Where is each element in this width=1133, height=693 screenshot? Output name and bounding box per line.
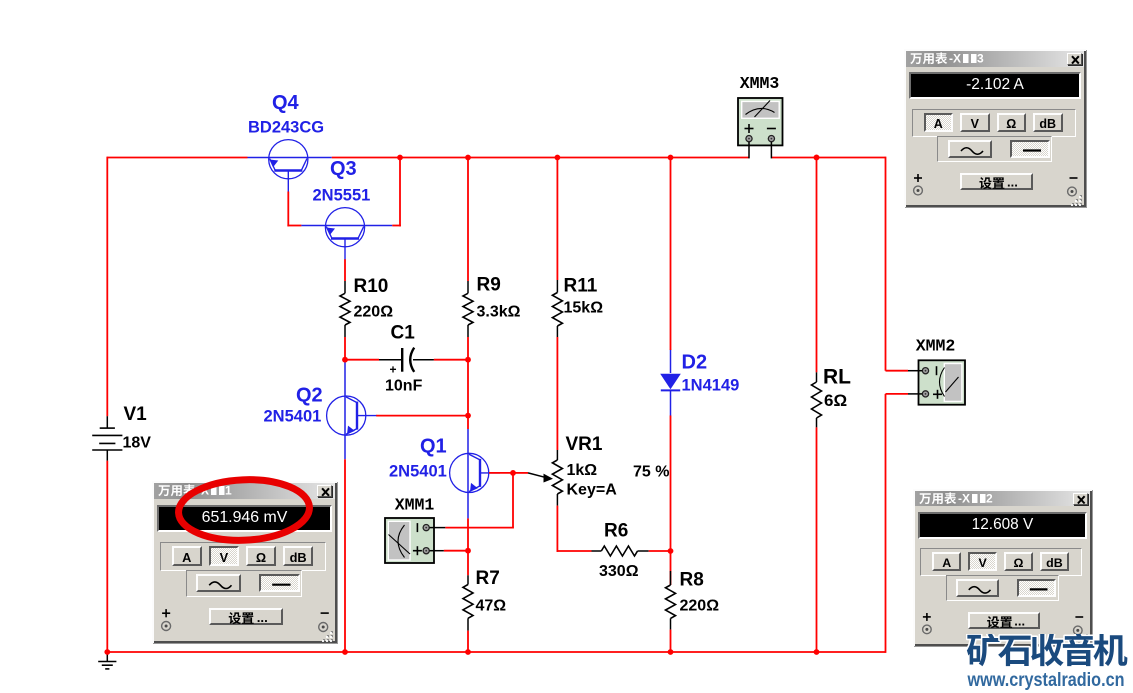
- display readout -2.102 A of XMM3: [909, 72, 1081, 99]
- button A of XMM1: [172, 546, 202, 566]
- svg-text:15kΩ: 15kΩ: [564, 300, 604, 317]
- wire bottom rail: [106, 651, 885, 653]
- wire C1 right lead: [434, 359, 468, 361]
- node top rail / R11: [555, 155, 561, 161]
- value Key=A of VR1: [567, 482, 618, 499]
- value 47ohm of R7: [476, 598, 507, 615]
- wire D2 to R6 node: [670, 416, 672, 552]
- svg-text:+: +: [390, 363, 397, 377]
- svg-text:R10: R10: [354, 276, 389, 297]
- label XMM2: [916, 337, 956, 356]
- button A of XMM2: [932, 552, 961, 571]
- terminal - of XMM1: [312, 608, 338, 639]
- node R6 / D2 / R8: [668, 548, 674, 554]
- svg-text:330Ω: 330Ω: [599, 563, 639, 580]
- label R8: [680, 570, 704, 591]
- label R11: [564, 276, 598, 297]
- wire Q3 collector to top rail node: [392, 225, 401, 227]
- wire XMM1 + lead black: [430, 550, 444, 552]
- display readout 651.946 mV of XMM1: [157, 505, 332, 533]
- svg-text:6Ω: 6Ω: [824, 391, 847, 410]
- node top rail / RL: [814, 155, 820, 161]
- svg-text:Q2: Q2: [296, 385, 323, 407]
- multimeter icon XMM2: [919, 360, 966, 404]
- close button of XMM2 panel: [1073, 493, 1088, 505]
- wire left rail lower (V1 -): [106, 461, 108, 652]
- label Q2: [296, 385, 323, 407]
- ground symbol: [98, 652, 116, 669]
- button dB of XMM2: [1040, 552, 1069, 571]
- resize grip of XMM2 panel: [1076, 634, 1092, 646]
- polarity + of C1: [390, 363, 397, 377]
- svg-text:18V: 18V: [123, 435, 152, 452]
- svg-text:BD243CG: BD243CG: [248, 119, 324, 137]
- value 220ohm of R10: [354, 304, 394, 321]
- value 3.3kohm of R9: [477, 304, 521, 321]
- value 2N5551 of Q3: [313, 187, 371, 205]
- button Ohm of XMM1: [246, 546, 276, 566]
- wire top rail to R11: [556, 158, 558, 281]
- svg-text:RL: RL: [823, 366, 851, 389]
- button dB of XMM1: [283, 546, 313, 566]
- wire top rail to RL: [816, 158, 818, 373]
- label R6: [604, 521, 628, 542]
- svg-text:V1: V1: [124, 404, 148, 425]
- wire R9 node down to Q2 base node: [467, 360, 469, 416]
- value 15kohm of R11: [564, 300, 604, 317]
- wire Q3 collector vertical: [399, 158, 401, 227]
- svg-text:VR1: VR1: [566, 434, 603, 455]
- svg-text:Key=A: Key=A: [567, 482, 618, 499]
- resize grip of XMM1 panel: [321, 631, 337, 643]
- svg-text:220Ω: 220Ω: [354, 304, 394, 321]
- wire XMM1 minus horizontal: [445, 527, 514, 529]
- node top rail / R9: [465, 155, 471, 161]
- value 75 % of VR1: [633, 464, 669, 481]
- label Q4: [272, 92, 300, 114]
- resistor R8 220ohm: [670, 551, 672, 585]
- wire left rail upper (V1 +): [106, 157, 108, 417]
- wire top rail right segment (XMM3 to corner): [772, 157, 886, 159]
- button A of XMM3: [924, 113, 954, 133]
- resistor R9 3.3kohm: [467, 281, 469, 293]
- resize grip of XMM3 panel: [1070, 195, 1086, 207]
- svg-text:...: ...: [257, 610, 268, 625]
- svg-text:47Ω: 47Ω: [476, 598, 507, 615]
- wire Q2 base node down to Q1 collector: [467, 416, 469, 429]
- svg-text:2: 2: [986, 492, 993, 506]
- value 10nF of C1: [385, 378, 423, 395]
- svg-text:75 %: 75 %: [633, 464, 669, 481]
- instrument panel 万用表-XMM2 (multimeter window): [913, 489, 1092, 646]
- button DC (line, selected) of XMM1: [259, 574, 300, 592]
- node top rail / XMM2 branch: [814, 155, 820, 161]
- button V of XMM2: [968, 552, 997, 571]
- node bottom rail / RL: [814, 649, 820, 655]
- wire Q3 base to R10: [344, 259, 346, 281]
- potentiometer VR1 1kohm: [556, 450, 558, 460]
- label XMM1: [395, 496, 435, 515]
- svg-text:www.crystalradio.cn: www.crystalradio.cn: [967, 669, 1125, 691]
- button 设置... (settings) of XMM1: [209, 608, 283, 625]
- wire right rail lower (XMM2 + to bottom rail): [885, 394, 887, 653]
- wire Q4 base down: [287, 192, 289, 227]
- wire top rail to R9: [467, 158, 469, 282]
- node C1 left / Q2 collector: [342, 357, 348, 363]
- wire XMM1 - lead black: [430, 527, 446, 529]
- wire XMM3 + to top rail: [748, 142, 750, 158]
- svg-text:R7: R7: [476, 568, 500, 589]
- svg-text:2N5401: 2N5401: [389, 463, 447, 481]
- wire XMM2 + lead black: [908, 393, 922, 395]
- svg-text:1kΩ: 1kΩ: [567, 462, 598, 479]
- wire XMM2 - lead black: [908, 370, 922, 372]
- resistor R10 220ohm: [344, 281, 346, 293]
- button 设置... (settings) of XMM2: [968, 612, 1040, 628]
- value 6ohm of RL: [824, 391, 847, 410]
- svg-text:10nF: 10nF: [385, 378, 423, 395]
- button AC (sine) of XMM1: [196, 574, 241, 592]
- multimeter icon XMM1: [385, 518, 434, 563]
- label R7: [476, 568, 500, 589]
- svg-text:Q1: Q1: [420, 436, 447, 458]
- label Q1: [420, 436, 447, 458]
- annotation red ellipse around XMM1 reading: [164, 470, 324, 550]
- button Ohm of XMM2: [1004, 552, 1033, 571]
- svg-text:R8: R8: [680, 570, 704, 591]
- label Q3: [330, 158, 357, 180]
- AC/DC button group of XMM1: [186, 570, 303, 597]
- terminal + of XMM1: [157, 605, 183, 632]
- node Q2 base / R9 branch: [465, 413, 471, 419]
- label V1: [124, 404, 148, 425]
- terminal - of XMM2: [1067, 612, 1093, 642]
- svg-text:...: ...: [1014, 614, 1025, 628]
- title bar 万用表-XMM3: [906, 51, 1084, 67]
- wire RL to bottom rail: [816, 427, 818, 653]
- mode button group of XMM3: [912, 109, 1076, 137]
- svg-text:XMM2: XMM2: [916, 337, 956, 356]
- svg-text:...: ...: [1007, 175, 1018, 190]
- value BD243CG of Q4: [248, 119, 324, 137]
- wire R7 to bottom rail: [467, 631, 469, 653]
- button AC (sine) of XMM2: [956, 579, 999, 596]
- resistor RL 6ohm: [816, 372, 818, 382]
- button V of XMM1: [209, 546, 239, 566]
- button 设置... (settings) of XMM3: [960, 173, 1033, 190]
- svg-text:Q3: Q3: [330, 158, 357, 180]
- terminal + of XMM3: [909, 170, 935, 196]
- wire XMM2 + horizontal: [886, 393, 909, 395]
- close button of XMM3 panel: [1067, 53, 1082, 66]
- display readout 12.608 V of XMM2: [918, 512, 1087, 539]
- wire C1 left lead: [345, 359, 379, 361]
- resistor R11 15kohm: [556, 280, 558, 293]
- terminal + of XMM2: [918, 609, 944, 635]
- wire R11 to VR1: [556, 337, 558, 450]
- transistor Q3 2N5551: [301, 208, 392, 260]
- resistor R6 330ohm: [592, 550, 602, 552]
- wire Q2 base to node: [376, 415, 468, 417]
- node bottom rail / R7: [465, 649, 471, 655]
- label RL: [823, 366, 851, 389]
- label D2: [682, 352, 708, 374]
- button dB of XMM3: [1033, 113, 1063, 133]
- label XMM3: [740, 74, 780, 93]
- wire Q1 base node to VR1 wiper (black): [513, 473, 553, 483]
- mode button group of XMM2: [920, 548, 1081, 576]
- node XMM1 plus / R7: [465, 548, 471, 554]
- svg-text:D2: D2: [682, 352, 708, 374]
- button Ohm of XMM3: [997, 113, 1027, 133]
- AC/DC button group of XMM3: [937, 136, 1052, 162]
- label R10: [354, 276, 389, 297]
- node bottom rail / left corner: [104, 649, 110, 655]
- terminal - of XMM3: [1061, 173, 1087, 203]
- svg-text:2N5401: 2N5401: [264, 408, 322, 426]
- transistor Q4 BD243CG: [248, 140, 332, 192]
- title bar 万用表-XMM2: [915, 491, 1090, 506]
- close button of XMM1 panel: [317, 485, 332, 498]
- wire XMM2 - horizontal: [886, 370, 909, 372]
- watermark www.crystalradio.cn: [965, 666, 1133, 692]
- diode D2 1N4149: [660, 350, 681, 416]
- wire top rail to D2: [670, 158, 672, 351]
- wire R8 to bottom rail: [670, 630, 672, 653]
- value 330ohm of R6: [599, 563, 639, 580]
- node Q1 base: [510, 470, 516, 476]
- mode button group of XMM1: [160, 542, 327, 571]
- label VR1: [566, 434, 603, 455]
- capacitor C1 10nF: [379, 348, 434, 372]
- wire top rail left segment: [107, 157, 247, 159]
- value 2N5401 of Q2: [264, 408, 322, 426]
- instrument panel 万用表-XMM1 (multimeter window): [152, 481, 337, 643]
- wire Q1 base to node: [489, 472, 514, 474]
- value 220ohm of R8: [680, 598, 720, 615]
- node bottom rail / Q2 emitter: [342, 649, 348, 655]
- button V of XMM3: [960, 113, 990, 133]
- value 1kohm of VR1: [567, 462, 598, 479]
- svg-text:1N4149: 1N4149: [682, 377, 740, 395]
- instrument panel 万用表-XMM3 (multimeter window): [904, 49, 1086, 207]
- AC/DC button group of XMM2: [946, 575, 1059, 601]
- wire R9 to C1 right node: [467, 337, 469, 360]
- wire R6 to D2 line: [649, 550, 671, 552]
- watermark 矿石收音机 logo: [966, 634, 1133, 676]
- multimeter icon XMM3: [738, 98, 783, 145]
- value 1N4149 of D2: [682, 377, 740, 395]
- transistor Q2 2N5401: [327, 363, 377, 460]
- svg-text:3: 3: [977, 52, 984, 66]
- svg-text:R9: R9: [477, 275, 501, 296]
- svg-text:XMM3: XMM3: [740, 74, 780, 93]
- title bar 万用表-XMM1: [154, 483, 335, 499]
- wire Q2 emitter down to bottom rail: [344, 459, 346, 653]
- wire Q1 emitter down: [467, 518, 469, 575]
- wire Q4 base corner to Q3 emitter: [287, 225, 301, 227]
- battery V1: [92, 416, 122, 460]
- svg-text:R11: R11: [564, 276, 598, 297]
- wire XMM3 - to top rail: [770, 142, 772, 158]
- node top rail / Q3 collector: [397, 155, 403, 161]
- svg-text:-X: -X: [958, 492, 970, 506]
- svg-text:-X: -X: [949, 52, 961, 66]
- wire R10 to C1 left node: [344, 337, 346, 360]
- resistor R7 47ohm: [467, 575, 469, 584]
- wire VR1 bottom to R6 corner: [556, 506, 558, 552]
- value 2N5401 of Q1: [389, 463, 447, 481]
- node bottom rail / R8: [668, 649, 674, 655]
- wire Q1 base node down to XMM1 minus: [512, 473, 514, 528]
- svg-text:C1: C1: [391, 323, 416, 344]
- wire VR1 corner to R6: [557, 550, 592, 552]
- svg-text:220Ω: 220Ω: [680, 598, 720, 615]
- value 18V of V1: [123, 435, 152, 452]
- wire top rail middle segment: [332, 157, 749, 159]
- label C1: [391, 323, 416, 344]
- button AC (sine) of XMM3: [948, 140, 992, 158]
- svg-text:2N5551: 2N5551: [313, 187, 371, 205]
- button DC (line, selected) of XMM3: [1010, 140, 1050, 158]
- wire right rail upper (to XMM2 -): [885, 157, 887, 371]
- svg-text:Q4: Q4: [272, 92, 300, 114]
- svg-text:XMM1: XMM1: [395, 496, 435, 515]
- button DC (line, selected) of XMM2: [1017, 579, 1056, 596]
- label R9: [477, 275, 501, 296]
- node top rail / D2: [668, 155, 674, 161]
- node C1 right: [465, 357, 471, 363]
- svg-text:3.3kΩ: 3.3kΩ: [477, 304, 521, 321]
- transistor Q1 2N5401: [450, 429, 500, 518]
- svg-text:R6: R6: [604, 521, 628, 542]
- wire XMM1 plus horizontal: [444, 550, 468, 552]
